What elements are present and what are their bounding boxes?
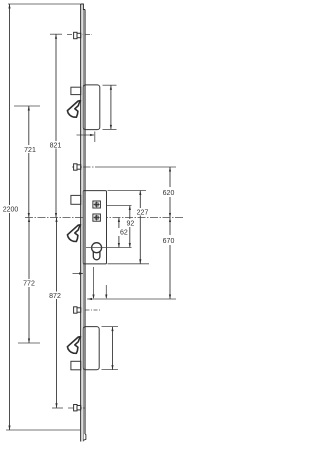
svg-text:721: 721 [24, 147, 36, 154]
svg-text:92: 92 [127, 220, 135, 227]
svg-text:670: 670 [163, 238, 175, 245]
svg-text:62: 62 [120, 230, 128, 237]
svg-text:772: 772 [23, 281, 35, 288]
svg-text:620: 620 [163, 190, 175, 197]
svg-text:2200: 2200 [3, 207, 19, 214]
svg-text:227: 227 [137, 209, 149, 216]
svg-text:821: 821 [50, 143, 62, 150]
svg-text:872: 872 [49, 293, 61, 300]
